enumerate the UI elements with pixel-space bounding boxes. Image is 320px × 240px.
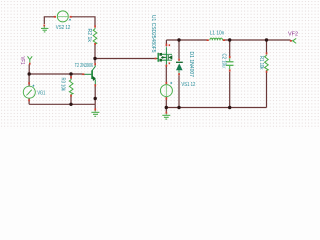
inductor L1 — [210, 30, 225, 40]
pin tick VS2 right — [70, 16, 72, 18]
wire right bottom rail — [166, 107, 266, 109]
pin tick D1 cathode — [178, 59, 180, 61]
wire D1 cathode up to top rail — [178, 40, 180, 59]
pin tick ground top-left — [43, 25, 45, 27]
wire R2 bottom to gate node — [94, 45, 96, 59]
svg-text:D1 1N4007: D1 1N4007 — [188, 52, 194, 78]
svg-text:VS2 12: VS2 12 — [56, 25, 71, 31]
C2 leads — [229, 58, 231, 69]
U1 body: gate lead, gate bar, channel links, drain-source vertical — [156, 47, 172, 64]
wire right ground stub — [165, 108, 167, 112]
pin tick L1 right — [223, 39, 225, 41]
wire D1 anode down to rail — [178, 75, 180, 107]
svg-text:U1 CSD25480F5: U1 CSD25480F5 — [150, 15, 156, 53]
svg-text:R1 10k: R1 10k — [258, 56, 264, 70]
D1 triangle — [176, 63, 183, 70]
ground (bottom center, VS1 negative) — [162, 114, 170, 120]
U1 body diode — [168, 55, 172, 59]
pin tick VG1 top — [28, 82, 30, 84]
wire VS2 right pin to R2 top — [72, 17, 96, 26]
pin tick U1 source — [166, 65, 168, 67]
plus mark VS1 — [170, 82, 172, 84]
pin tick C2 bottom — [229, 69, 231, 71]
ground (top left, VS2 negative) — [41, 26, 48, 32]
wire R1 top — [266, 40, 268, 53]
wire R1 bottom — [266, 72, 268, 107]
svg-text:R3 10k: R3 10k — [60, 78, 66, 92]
svg-text:R2 1k: R2 1k — [86, 29, 92, 43]
pin tick R3 bottom — [70, 95, 72, 97]
node R3 top junction — [69, 72, 72, 75]
pin number mark U1 drain — [169, 44, 171, 46]
diode D1 1N4007 — [176, 52, 194, 78]
pin tick U1 gate — [155, 58, 157, 60]
pin tick VF2 probe — [290, 40, 292, 42]
U1 substrate arrow — [162, 56, 166, 59]
pin number mark U1 source — [169, 62, 171, 64]
T2 body: base lead, base bar, collector, emitter — [84, 65, 96, 85]
pin tick R1 bottom — [266, 71, 268, 73]
pin tick C2 top — [229, 56, 231, 58]
capacitor C2 — [221, 54, 234, 70]
wire top rail left of L1 — [166, 39, 207, 41]
wire T2 emitter down to rail — [94, 86, 96, 105]
wire R3 bottom stub — [70, 95, 72, 105]
pin tick T2 base — [82, 73, 84, 75]
plus mark VS2 — [69, 19, 71, 21]
node D1 anode rail junction — [177, 106, 180, 109]
node base (VF1/VG1/base junction) — [28, 72, 31, 75]
probe VF2 — [288, 32, 298, 44]
node C2 top rail junction — [228, 38, 231, 41]
svg-text:VG1: VG1 — [37, 91, 45, 97]
pin tick U1 drain — [166, 44, 168, 46]
svg-text:C2 10u: C2 10u — [221, 54, 227, 68]
node gate (R2/T2/U1 junction) — [93, 57, 96, 60]
pin tick ground bottom-center — [166, 112, 168, 114]
node VS1 bottom junction — [165, 106, 168, 109]
wire ground to VS2 left pin — [44, 17, 54, 24]
pin tick VS1 bottom — [166, 97, 168, 99]
wire U1 source down to VS1 — [165, 66, 167, 83]
wire VF1 probe stem — [28, 64, 30, 74]
probe VF1 — [19, 56, 32, 64]
pin tick VS1 top — [166, 82, 168, 84]
pin tick T2 emitter — [94, 84, 96, 86]
node R1 top rail junction — [265, 38, 268, 41]
resistor R3 — [60, 78, 74, 95]
pin tick R1 top — [266, 52, 268, 54]
D1 anode lead — [178, 70, 180, 73]
wire left ground stub — [94, 104, 96, 108]
wire VG1 bottom — [28, 98, 30, 104]
mosfet U1 CSD25480F5 — [150, 15, 172, 65]
wire left bottom rail — [29, 103, 95, 105]
C2 plates — [226, 61, 234, 63]
wire gate node to U1 gate — [95, 58, 155, 60]
wire C2 bottom — [229, 72, 231, 108]
pin tick ground bottom-left — [94, 108, 96, 110]
pin tick T2 collector — [94, 63, 96, 65]
node R3 bottom junction — [69, 103, 72, 106]
node emitter junction — [94, 97, 97, 100]
voltage source VS2 — [56, 11, 71, 31]
plus mark VG1 — [32, 85, 34, 87]
svg-text:VF1: VF1 — [19, 57, 25, 65]
ground (bottom left, emitter rail) — [91, 110, 99, 116]
pin tick VS2 left — [54, 16, 56, 18]
pin tick R2 top — [94, 25, 96, 27]
svg-text:L1 10n: L1 10n — [210, 30, 225, 36]
node D1 cathode rail junction — [177, 38, 180, 41]
transistor Q1 T2 2N3906 — [75, 63, 96, 86]
wire base net horizontal — [29, 73, 82, 75]
pin tick R2 bottom — [94, 43, 96, 45]
D1 cathode bar — [176, 61, 183, 63]
pin tick R3 top — [70, 76, 72, 78]
pin tick VG1 bottom — [28, 99, 30, 101]
resistor R2 — [86, 28, 97, 45]
svg-text:VF2: VF2 — [288, 32, 298, 38]
wire VG1 top — [28, 74, 30, 86]
T2 emitter arrow — [92, 76, 96, 81]
resistor R1 — [258, 55, 268, 71]
voltage source VS1 — [160, 82, 195, 97]
U1 channel pads — [159, 53, 162, 56]
wire top rail right of L1 to VF2 — [223, 39, 291, 41]
node C2 bottom rail junction — [228, 106, 231, 109]
pin tick VF1 probe — [29, 63, 31, 65]
wire VS1 bottom — [165, 97, 167, 108]
svg-text:T2 2N3906: T2 2N3906 — [75, 63, 93, 69]
wire R3 top stub — [70, 76, 72, 79]
pin tick D1 anode — [178, 73, 180, 75]
svg-text:VS1 12: VS1 12 — [181, 82, 195, 88]
wire U1 drain up to top rail — [165, 40, 167, 47]
wire C2 top — [229, 40, 231, 57]
pin tick L1 left — [207, 39, 209, 41]
voltage generator VG1 — [23, 85, 45, 98]
wire gate node down to T2 collector — [94, 59, 96, 64]
